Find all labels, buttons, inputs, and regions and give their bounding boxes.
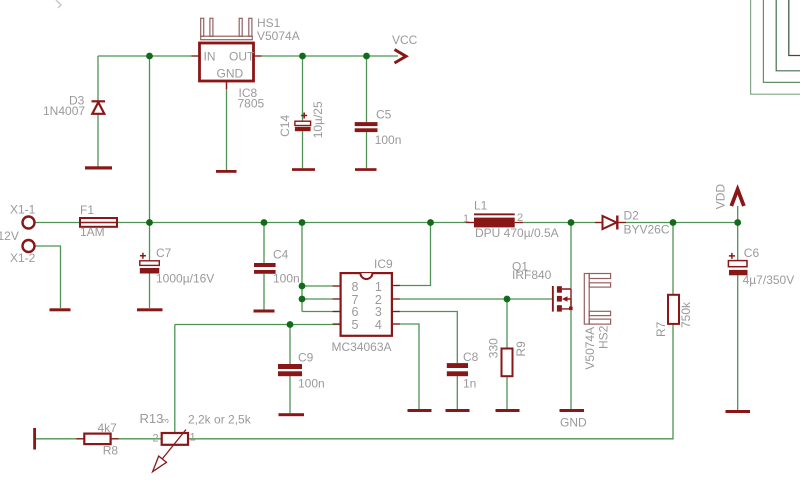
- svg-text:4: 4: [375, 318, 382, 332]
- ground under C4: [254, 310, 275, 313]
- ground under R9: [496, 409, 520, 412]
- svg-text:2: 2: [153, 433, 159, 445]
- wire C4 top lead: [263, 223, 265, 264]
- node VDD junction at R7: [670, 219, 677, 226]
- svg-text:10µ/25: 10µ/25: [311, 101, 325, 138]
- svg-text:5: 5: [352, 318, 359, 332]
- svg-text:12V: 12V: [0, 229, 19, 243]
- frame border corner line 3: [776, 0, 800, 71]
- wire pin 3 to C8: [392, 312, 457, 364]
- svg-text:OUT: OUT: [229, 50, 255, 64]
- svg-text:IRF840: IRF840: [512, 268, 552, 282]
- svg-text:1n: 1n: [463, 377, 476, 391]
- ground under X1-2: [50, 308, 71, 311]
- svg-text:D2: D2: [624, 209, 640, 223]
- svg-text:C4: C4: [273, 248, 289, 262]
- svg-text:HS1: HS1: [257, 16, 281, 30]
- svg-text:VCC: VCC: [392, 33, 418, 47]
- ground under C8: [446, 409, 470, 412]
- diode D3 1N4007: [92, 101, 106, 114]
- svg-text:IC9: IC9: [374, 257, 393, 271]
- svg-text:1AM: 1AM: [80, 225, 105, 239]
- wire C5 top lead: [366, 56, 368, 122]
- wire R9 bottom lead: [506, 376, 508, 409]
- svg-text:2,2k or 2,5k: 2,2k or 2,5k: [188, 413, 252, 427]
- ground under D3: [85, 166, 112, 169]
- wire D2 cathode to VDD node: [618, 222, 738, 224]
- svg-text:1N4007: 1N4007: [43, 104, 85, 118]
- wire IN node down to 12V bus: [149, 56, 151, 223]
- wire C5 bottom lead: [366, 132, 368, 168]
- svg-text:GND: GND: [217, 67, 244, 81]
- node junction pin 7: [299, 296, 306, 303]
- wire R7 bottom to R13 pin 1: [188, 324, 673, 439]
- svg-text:X1-1: X1-1: [10, 203, 36, 217]
- svg-text:R7: R7: [654, 321, 668, 337]
- wire Q1 drain up to switch node: [570, 223, 572, 290]
- node VCC junction at C5: [363, 53, 370, 60]
- svg-text:F1: F1: [80, 203, 94, 217]
- wire C8 bottom lead: [456, 376, 458, 409]
- svg-text:R8: R8: [103, 444, 119, 458]
- smudge top left: [56, 0, 61, 8]
- wire R7 top lead: [672, 223, 674, 295]
- wire to pin 7: [302, 298, 341, 300]
- ground under Q1: [560, 409, 585, 412]
- ground under pin 4 wire: [408, 409, 432, 412]
- ground under C7: [137, 308, 163, 311]
- resistor R8: [76, 434, 118, 445]
- svg-text:8: 8: [352, 280, 359, 294]
- node VDD junction at C6: [734, 219, 741, 226]
- wire fuse to L1 (12V bus): [117, 222, 474, 224]
- inductor L1: [466, 213, 523, 227]
- wire X1-1 to fuse F1: [36, 222, 81, 224]
- wire to pin 6: [302, 311, 341, 313]
- svg-text:330: 330: [486, 338, 500, 358]
- svg-text:L1: L1: [474, 199, 488, 213]
- svg-text:6: 6: [352, 305, 359, 319]
- wire to pin 8: [302, 285, 341, 287]
- wire C14 bottom lead: [302, 131, 304, 168]
- capacitor C7: [140, 253, 160, 274]
- ground under C9: [279, 413, 305, 416]
- svg-text:2: 2: [517, 212, 523, 224]
- capacitor C5: [355, 122, 378, 132]
- svg-text:750k: 750k: [679, 301, 693, 328]
- node 12V junction at pin 1 riser: [427, 219, 434, 226]
- node switch junction at Q1 drain: [568, 219, 575, 226]
- frame border corner line 1: [751, 0, 800, 94]
- svg-text:100n: 100n: [375, 133, 402, 147]
- wire terminal to R8: [35, 438, 85, 440]
- svg-text:C14: C14: [278, 115, 292, 137]
- node gate junction at R9: [504, 296, 511, 303]
- capacitor C9: [278, 364, 302, 376]
- wire pin 1 to bus: [392, 223, 431, 286]
- frame border corner line 2: [763, 0, 800, 82]
- capacitor C14: [295, 113, 311, 132]
- node 12V junction at IC9 supply: [299, 219, 306, 226]
- svg-text:C7: C7: [156, 246, 172, 260]
- potentiometer R13: [153, 430, 188, 472]
- wire C7 bottom lead: [149, 274, 151, 309]
- wire D3 cathode up: [97, 56, 99, 100]
- svg-text:R9: R9: [514, 341, 528, 357]
- wire C6 top lead: [737, 223, 739, 261]
- ground under C5: [355, 168, 377, 171]
- node IN junction at D3/IC8: [146, 53, 153, 60]
- svg-text:V5074A: V5074A: [257, 29, 300, 43]
- wire IC8 GND lead: [226, 81, 228, 170]
- node 12V junction at C4: [261, 219, 268, 226]
- wire VDD arrow stub: [737, 206, 739, 223]
- wire R9 top lead: [506, 299, 508, 349]
- wire C14 top lead: [302, 56, 304, 121]
- connector pad X1-1: [23, 217, 35, 229]
- node 12V junction at fuse/C7: [146, 219, 153, 226]
- svg-text:100n: 100n: [273, 272, 300, 286]
- ground under IC8: [216, 170, 237, 173]
- svg-text:X1-2: X1-2: [10, 251, 36, 265]
- wire C9 top lead: [289, 325, 291, 365]
- svg-text:1: 1: [375, 280, 382, 294]
- svg-text:V5074A: V5074A: [583, 327, 597, 370]
- svg-text:C6: C6: [744, 246, 760, 260]
- supply arrow VCC: [395, 50, 407, 64]
- wire Q1 source to ground: [570, 299, 572, 409]
- wire pin 5 feedback: [175, 324, 341, 326]
- svg-text:GND: GND: [560, 416, 587, 430]
- diode D2 BYV26C: [595, 216, 626, 230]
- wire C6 bottom lead: [737, 275, 739, 410]
- svg-text:MC34063A: MC34063A: [332, 340, 392, 354]
- wire C7 top lead: [149, 223, 151, 261]
- wire pin 4 to ground: [392, 324, 419, 409]
- capacitor C4: [254, 263, 276, 274]
- wire bus down to IC9 pins 8-7-6: [301, 223, 303, 312]
- heatsink HS2: [584, 274, 610, 325]
- capacitor C8: [447, 363, 468, 376]
- fuse F1: [80, 218, 117, 227]
- connector pad X1-2: [23, 240, 35, 252]
- wire IC8 OUT to VCC: [254, 55, 399, 57]
- node junction pin 8: [299, 283, 306, 290]
- resistor R9: [502, 349, 513, 377]
- svg-text:100n: 100n: [298, 377, 325, 391]
- svg-text:1: 1: [463, 213, 469, 225]
- svg-text:3: 3: [161, 418, 171, 423]
- supply arrow VDD: [731, 190, 744, 207]
- svg-text:4k7: 4k7: [98, 421, 118, 435]
- wire C4 bottom lead: [263, 274, 265, 310]
- ground under C6: [726, 410, 751, 413]
- IC U1 MC34063A (IC9): [333, 273, 400, 336]
- node VCC junction at C14: [299, 53, 306, 60]
- wire X1-2 to ground: [36, 246, 61, 308]
- capacitor C6: [728, 253, 747, 275]
- wire C9 bottom lead: [289, 376, 291, 413]
- svg-text:BYV26C: BYV26C: [624, 223, 670, 237]
- svg-text:VDD: VDD: [713, 184, 727, 210]
- svg-text:1: 1: [190, 432, 196, 444]
- wire pin 2 to Q1 gate: [392, 298, 552, 300]
- resistor R7: [668, 295, 679, 324]
- terminal bar at R8 input: [33, 428, 36, 450]
- svg-text:7805: 7805: [238, 97, 265, 111]
- ground under C14: [292, 168, 315, 171]
- svg-text:C9: C9: [298, 351, 314, 365]
- svg-text:3: 3: [375, 305, 382, 319]
- svg-text:4µ7/350V: 4µ7/350V: [743, 273, 795, 287]
- heatsink HS1: [201, 18, 253, 39]
- transistor Q1 IRF840: [552, 286, 573, 312]
- wire D3 anode to ground: [97, 114, 99, 167]
- node feedback junction at C9: [287, 321, 294, 328]
- svg-text:IN: IN: [204, 50, 216, 64]
- regulator IC8 7805: [192, 43, 262, 89]
- svg-text:DPU 470µ/0.5A: DPU 470µ/0.5A: [475, 226, 559, 240]
- wire R8 to R13 pin 2: [111, 438, 162, 440]
- svg-text:C8: C8: [463, 350, 479, 364]
- wire L1 to D2 switch node: [519, 222, 603, 224]
- svg-text:1000µ/16V: 1000µ/16V: [156, 272, 214, 286]
- wire D3 to IC8 IN: [98, 55, 200, 57]
- svg-text:HS2: HS2: [597, 325, 611, 349]
- svg-text:C5: C5: [376, 108, 392, 122]
- wire feedback down to R13 wiper: [174, 325, 176, 433]
- frame border corner line 4: [789, 0, 800, 56]
